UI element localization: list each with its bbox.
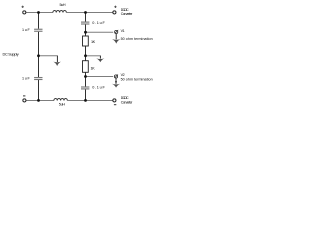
wire V2 ground stem xyxy=(115,79,117,84)
label + top left xyxy=(22,6,24,8)
probe V1 port circle xyxy=(114,30,118,34)
probe V2 port circle xyxy=(114,75,118,79)
node dot B xyxy=(84,54,87,57)
node dot top rail C3 xyxy=(84,11,87,14)
label - bottom right xyxy=(114,104,116,106)
wire top rail right xyxy=(67,12,113,14)
svg-text:5uH: 5uH xyxy=(60,3,66,7)
ground arrow right mid xyxy=(96,58,104,62)
svg-text:DC-DC: DC-DC xyxy=(121,96,129,100)
resistor R2 1K xyxy=(83,61,89,73)
svg-text:50 ohm termination: 50 ohm termination xyxy=(121,37,153,41)
wire R2 to node C to C4 xyxy=(85,72,87,86)
label + top right xyxy=(114,6,116,8)
wire ground stub right horizontal xyxy=(86,55,101,57)
inductor L2 5uH xyxy=(54,98,67,100)
terminal - output right bottom xyxy=(112,98,116,102)
capacitor C1 1uF xyxy=(34,28,42,30)
ground arrow V2 termination xyxy=(112,84,120,88)
wire top rail left xyxy=(26,12,53,14)
capacitor plates (dark) xyxy=(34,22,89,89)
svg-text:1uF: 1uF xyxy=(22,77,31,81)
resistor R1 1K xyxy=(83,36,89,46)
wire ground stub left vertical xyxy=(56,56,58,62)
wire node C to V2 xyxy=(86,76,114,78)
node dot A xyxy=(84,31,87,34)
node dot C xyxy=(84,75,87,78)
wire ground stub left horizontal xyxy=(39,55,58,57)
svg-text:1uF: 1uF xyxy=(22,28,31,32)
horizontal wires (light gray) xyxy=(26,13,113,101)
node dot bottom rail C2 xyxy=(37,99,40,102)
junction V2 stem dot xyxy=(115,81,117,83)
svg-text:V2: V2 xyxy=(121,73,125,77)
svg-text:Converter: Converter xyxy=(121,101,133,105)
wire C1 bottom to C2 top xyxy=(38,32,40,77)
node dot bottom rail C4 xyxy=(84,99,87,102)
wire ground stub right vertical xyxy=(99,56,101,59)
ground arrow V1 termination xyxy=(112,39,120,44)
capacitor C2 1uF xyxy=(34,77,42,79)
wire bottom rail right xyxy=(68,100,113,102)
terminal + output right xyxy=(112,10,116,14)
node dot top rail C1 xyxy=(37,11,40,14)
svg-text:0.1uF: 0.1uF xyxy=(92,86,105,90)
wire C4 bottom lead xyxy=(85,89,87,100)
wire cap C1 top lead xyxy=(38,13,40,29)
wire cap C3 top lead xyxy=(85,13,87,22)
svg-text:1K: 1K xyxy=(91,40,96,44)
wire C2 bottom lead xyxy=(38,80,40,101)
svg-text:50 ohm termination: 50 ohm termination xyxy=(121,78,153,82)
vertical wires (dark) xyxy=(39,13,117,101)
svg-text:DC Supply: DC Supply xyxy=(3,51,19,56)
wire C3 to node A to R1 xyxy=(85,25,87,36)
label - bottom left xyxy=(23,95,25,97)
svg-text:Converter: Converter xyxy=(121,12,133,16)
probe V1 arrowhead xyxy=(117,30,119,32)
wire R1 to node B to R2 xyxy=(85,46,87,61)
terminal - input left bottom xyxy=(22,98,26,102)
capacitor C4 0.1uF xyxy=(81,86,89,88)
svg-text:0.1uF: 0.1uF xyxy=(92,21,105,25)
wire bottom rail left xyxy=(26,100,54,102)
ground arrow left mid xyxy=(53,62,61,66)
capacitor C3 0.1uF xyxy=(81,21,89,23)
wire node A to V1 xyxy=(86,31,114,33)
node dot left gnd xyxy=(37,54,40,57)
probe V2 arrowhead xyxy=(117,74,119,76)
svg-text:V1: V1 xyxy=(121,29,125,33)
wire V1 ground stem xyxy=(115,34,117,39)
component symbols xyxy=(22,10,118,102)
inductor L1 5uH xyxy=(53,10,66,12)
svg-text:5uH: 5uH xyxy=(59,103,66,107)
svg-text:1K: 1K xyxy=(91,66,96,70)
terminal + input left xyxy=(22,10,26,14)
